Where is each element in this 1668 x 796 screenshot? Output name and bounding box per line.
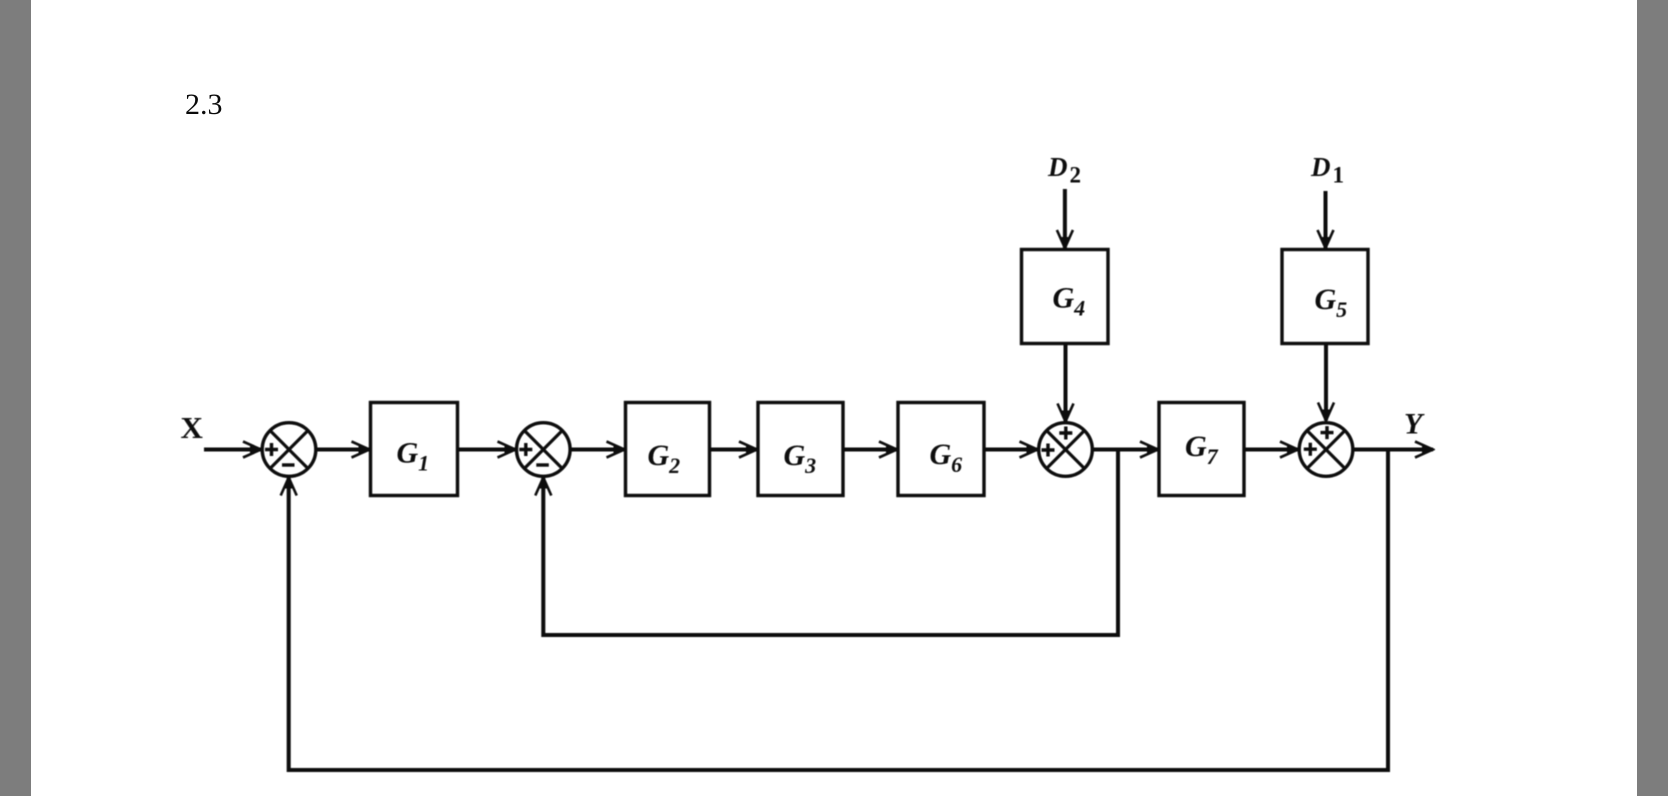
svg-text:Y: Y (1404, 408, 1425, 441)
svg-text:X: X (181, 410, 204, 445)
svg-text:2.3: 2.3 (185, 88, 223, 121)
